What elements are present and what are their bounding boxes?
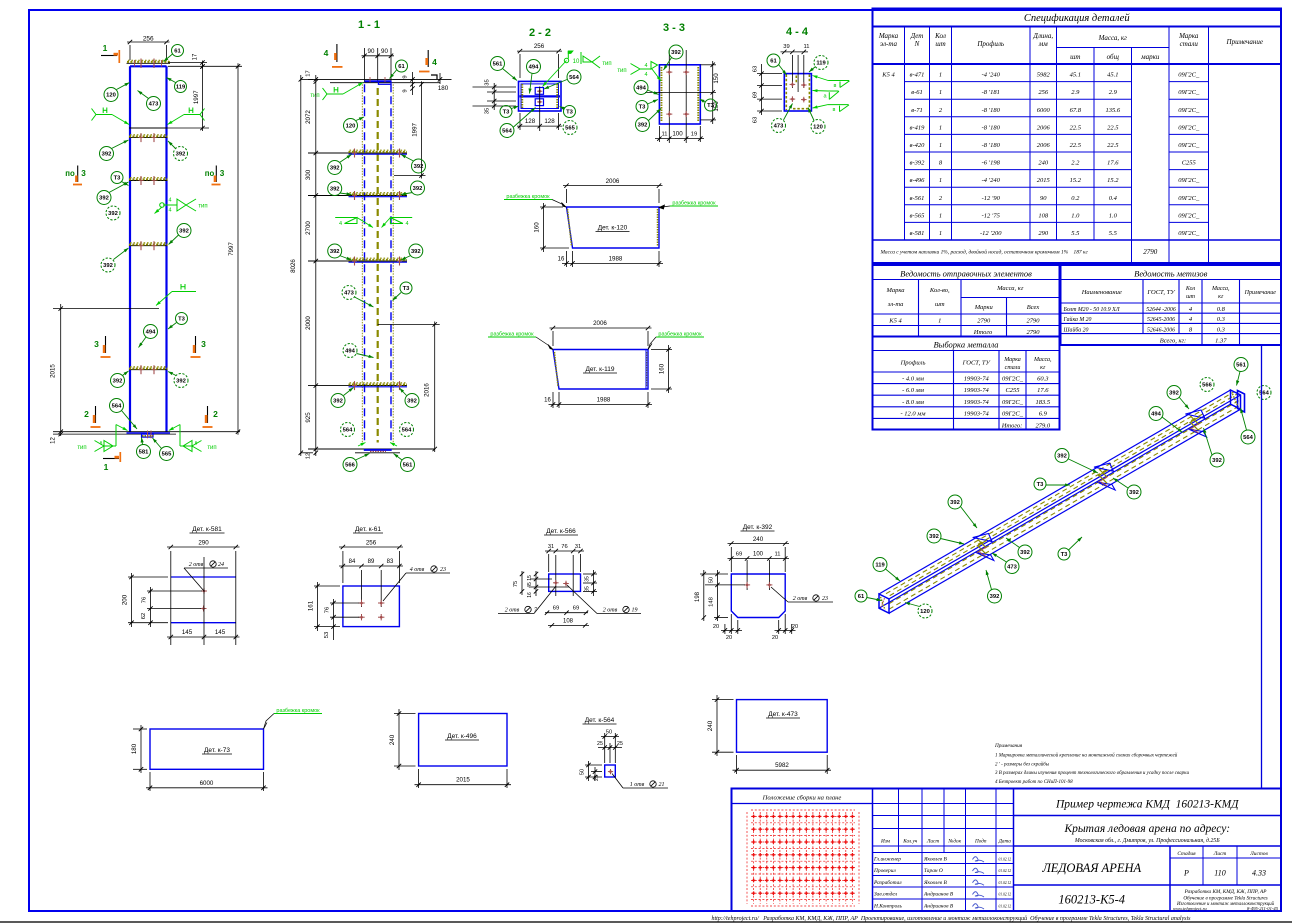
- spec table: Спецификация деталей - outer frame: [873, 9, 1282, 264]
- svg-text:25: 25: [597, 741, 603, 747]
- svg-text:Ведомость отправочных элементо: Ведомость отправочных элементов: [900, 269, 1032, 279]
- svg-text:12: 12: [51, 437, 57, 444]
- svg-text:Примечания: Примечания: [994, 743, 1023, 749]
- bubble 61 4-4: [767, 54, 780, 67]
- svg-text:17.6: 17.6: [1037, 387, 1049, 394]
- right end cap weld hatch: [1233, 394, 1238, 406]
- svg-text:100: 100: [672, 131, 683, 138]
- svg-text:16: 16: [544, 398, 551, 404]
- svg-text:- 12.0 мм: - 12.0 мм: [900, 410, 925, 417]
- svg-text:90: 90: [368, 48, 375, 55]
- svg-text:63: 63: [753, 117, 759, 123]
- bolts 3-3: [666, 71, 672, 73]
- svg-text:3: 3: [220, 169, 225, 178]
- svg-text:стали: стали: [1005, 365, 1021, 371]
- svg-text:2790: 2790: [977, 318, 991, 325]
- bubble Т3 left 2-2: [500, 106, 512, 118]
- svg-text:в: в: [833, 107, 836, 113]
- svg-text:Марка: Марка: [1003, 357, 1021, 363]
- svg-text:240: 240: [753, 536, 764, 543]
- svg-text:Андрианов В: Андрианов В: [923, 903, 954, 910]
- bubble 494 2-2: [527, 60, 541, 74]
- svg-text:45: 45: [527, 582, 533, 588]
- svg-text:473: 473: [149, 102, 159, 108]
- svg-text:90: 90: [381, 48, 388, 55]
- svg-text:0.8: 0.8: [1217, 306, 1226, 313]
- svg-text:148: 148: [709, 597, 715, 607]
- svg-text:тип: тип: [198, 204, 207, 210]
- dims 128 128 bottom 2-2: [519, 113, 521, 130]
- bubble 473 dashed 4-4: [772, 119, 786, 133]
- svg-text:2790: 2790: [1027, 318, 1041, 325]
- svg-text:84: 84: [349, 559, 356, 565]
- bubble 494 iso: [1149, 407, 1163, 421]
- svg-text:128: 128: [525, 118, 536, 125]
- dim 17 top right: [168, 62, 207, 64]
- dim 180 к-73: [133, 728, 147, 730]
- dim 256 top: [127, 41, 170, 43]
- svg-text:09Г2С_: 09Г2С_: [1002, 410, 1024, 417]
- svg-text:392: 392: [176, 379, 186, 385]
- bubble 119: [175, 81, 187, 93]
- bottom dims 145 145 к-581: [167, 636, 240, 638]
- dims 50 25 25 к-564 top: [604, 733, 606, 763]
- svg-text:52644 -2006: 52644 -2006: [1146, 306, 1176, 313]
- svg-text:392: 392: [407, 399, 417, 405]
- svg-text:76: 76: [142, 597, 148, 603]
- dims 16 1988 к-119: [552, 392, 554, 408]
- svg-text:392: 392: [990, 594, 1000, 600]
- svg-text:С255: С255: [1182, 160, 1197, 167]
- svg-text:2006: 2006: [606, 178, 620, 185]
- svg-text:45.1: 45.1: [1107, 72, 1118, 79]
- svg-text:3 - 3: 3 - 3: [663, 22, 685, 34]
- svg-text:128: 128: [544, 118, 555, 125]
- svg-text:кг: кг: [1218, 294, 1224, 300]
- svg-text:1997: 1997: [412, 122, 419, 136]
- svg-text:2: 2: [84, 409, 89, 419]
- svg-text:2006: 2006: [593, 320, 607, 327]
- svg-text:21: 21: [659, 782, 665, 788]
- bubble 561 2-2: [491, 57, 505, 71]
- svg-text:160213-К5-4: 160213-К5-4: [1058, 893, 1125, 907]
- svg-text:17: 17: [306, 70, 312, 76]
- svg-text:290: 290: [1038, 230, 1049, 237]
- left dims к-564: [585, 764, 602, 766]
- svg-text:Разработка КМ, КМД, КЖ, ППР, А: Разработка КМ, КМД, КЖ, ППР, АР: [1184, 888, 1268, 895]
- bolts к-581: [201, 590, 207, 592]
- svg-text:392: 392: [411, 249, 421, 255]
- bubble 392 bottom left 3-3: [636, 118, 650, 132]
- svg-text:К5 4: К5 4: [888, 318, 902, 325]
- svg-text:09Г2С_: 09Г2С_: [1178, 230, 1200, 237]
- bubble 392 iso f: [927, 529, 941, 543]
- bubble 565 dashed 2-2: [563, 121, 577, 135]
- svg-text:Т3: Т3: [403, 286, 411, 292]
- bubble 564 bottom 2-2: [500, 124, 514, 138]
- spec table footer row: [873, 239, 1282, 241]
- svg-text:108: 108: [1038, 212, 1049, 219]
- total dim 8026 1-1: [300, 75, 302, 456]
- svg-text:69: 69: [553, 606, 559, 612]
- dim 1997 right 1-1: [394, 175, 426, 177]
- svg-text:2 отв: 2 отв: [603, 608, 618, 614]
- column edges 1-1: [364, 84, 366, 442]
- svg-text:2006: 2006: [1037, 124, 1051, 131]
- bubble Т3 1-1: [400, 282, 412, 294]
- svg-text:шт: шт: [1186, 294, 1196, 300]
- svg-text:Итого:: Итого:: [1001, 422, 1023, 429]
- svg-text:01.02.12: 01.02.12: [998, 858, 1011, 862]
- dims 39 11 top 4-4: [781, 51, 809, 53]
- dim 160 к-120: [540, 206, 563, 208]
- svg-text:19903-74: 19903-74: [964, 410, 990, 417]
- svg-text:1997: 1997: [193, 90, 200, 104]
- svg-text:ЛЕДОВАЯ АРЕНА: ЛЕДОВАЯ АРЕНА: [1041, 861, 1141, 875]
- svg-text:Дет. к-581: Дет. к-581: [192, 526, 222, 533]
- svg-text:61: 61: [174, 49, 181, 55]
- spec table header grid: [873, 63, 1282, 65]
- svg-text:566: 566: [1202, 383, 1212, 389]
- bubble Т3 right mid: [176, 313, 188, 325]
- detail Дет. к-119 plate: [553, 350, 648, 390]
- svg-text:19: 19: [632, 608, 638, 614]
- dims 35 35 left 2-2: [473, 86, 517, 88]
- svg-text:Таран О: Таран О: [924, 868, 943, 874]
- bubble 120: [104, 88, 118, 102]
- svg-text:17.6: 17.6: [1107, 160, 1119, 167]
- svg-text:4: 4: [644, 63, 647, 69]
- box section 3-3: [659, 65, 700, 124]
- svg-text:Положение сборки на плане: Положение сборки на плане: [762, 795, 842, 802]
- svg-text:566: 566: [345, 463, 355, 469]
- bubble Т3 iso b: [1058, 548, 1070, 560]
- dim 2016 right 1-1: [434, 322, 436, 453]
- svg-text:1: 1: [939, 230, 942, 237]
- web plate horizontal 2-2: [520, 95, 561, 97]
- svg-text:Московская обл., г. Дмитров, у: Московская обл., г. Дмитров, ул. Професс…: [1074, 837, 1220, 844]
- svg-text:4: 4: [644, 72, 647, 78]
- title block outer frame: [732, 789, 1282, 912]
- svg-text:53: 53: [324, 632, 330, 638]
- svg-text:145: 145: [215, 629, 226, 636]
- stiffener cluster c2: [1094, 463, 1113, 471]
- stiffener row2 1-1: [308, 195, 407, 197]
- bubble 392 top 3-3: [669, 45, 683, 59]
- weld symbol at base left: [116, 425, 128, 431]
- svg-text:Стадия: Стадия: [1177, 850, 1196, 857]
- svg-text:5982: 5982: [775, 762, 789, 769]
- svg-text:39: 39: [783, 44, 789, 50]
- svg-text:120: 120: [106, 93, 116, 99]
- dim 7997 right: [168, 65, 242, 67]
- svg-text:75: 75: [513, 581, 519, 587]
- svg-text:Дет: Дет: [910, 32, 924, 40]
- svg-text:3 В размерах длины изучения п: 3 В размерах длины изучения процент техн…: [995, 771, 1190, 776]
- svg-text:62: 62: [141, 613, 147, 619]
- dim 240 к-473: [712, 699, 734, 701]
- svg-text:2 - 2: 2 - 2: [529, 27, 551, 39]
- box section 2-2 inner wall: [521, 84, 559, 109]
- bubble 564 dashed iso right: [1257, 386, 1271, 400]
- svg-text:1: 1: [939, 89, 942, 96]
- svg-text:Т3: Т3: [1037, 482, 1045, 488]
- svg-text:20: 20: [772, 635, 778, 641]
- svg-text:392: 392: [638, 123, 648, 129]
- svg-text:-4 ′240: -4 ′240: [982, 177, 1001, 184]
- box section 2-2 outer: [519, 81, 562, 111]
- svg-text:0.2: 0.2: [1071, 195, 1080, 202]
- bubble 61 top: [172, 45, 184, 57]
- dim 2015 к-496: [418, 769, 420, 788]
- svg-text:Профиль: Профиль: [976, 40, 1004, 48]
- svg-text:61: 61: [398, 64, 405, 70]
- column centerline olive dashed: [377, 88, 379, 443]
- svg-text:19903-74: 19903-74: [964, 387, 990, 394]
- bubbles 392 row1 1-1: [328, 161, 342, 175]
- stiffener row 1: [129, 137, 168, 139]
- svg-text:23: 23: [822, 596, 828, 602]
- weld mark H right top: [184, 114, 200, 116]
- bolt gauge verticals 4-4: [791, 55, 793, 88]
- bubble 392 row4 right dashed: [174, 374, 188, 388]
- svg-text:4: 4: [168, 208, 171, 214]
- svg-text:392: 392: [1057, 454, 1067, 460]
- svg-text:2790: 2790: [1027, 329, 1041, 336]
- svg-text:22.5: 22.5: [1070, 142, 1082, 149]
- svg-text:Т3: Т3: [178, 317, 186, 323]
- stiffener row 3: [129, 245, 168, 247]
- dim 9 9 right of cap: [393, 78, 415, 80]
- svg-text:тип: тип: [310, 93, 319, 99]
- svg-text:392: 392: [950, 500, 960, 506]
- svg-text:119: 119: [875, 563, 885, 569]
- svg-text:2790: 2790: [1143, 248, 1158, 256]
- svg-text:256: 256: [534, 43, 545, 50]
- red assembly-position hatch grid: [746, 812, 748, 904]
- svg-text:тип: тип: [207, 445, 216, 451]
- bubble 473: [147, 97, 161, 111]
- svg-text:1: 1: [938, 318, 941, 325]
- svg-text:Дата: Дата: [998, 839, 1012, 845]
- svg-text:Лист: Лист: [926, 839, 939, 845]
- svg-text:8-495-211-01-45: 8-495-211-01-45: [1247, 906, 1279, 911]
- bubble 494: [144, 325, 158, 339]
- svg-text:22.5: 22.5: [1107, 142, 1119, 149]
- svg-text:108: 108: [563, 619, 574, 625]
- svg-text:240: 240: [1038, 160, 1049, 167]
- svg-text:Гайка М 20: Гайка М 20: [1063, 316, 1092, 323]
- svg-text:шт: шт: [935, 40, 945, 48]
- olive hatch edges 3-3: [661, 67, 663, 122]
- svg-text:01.02.12: 01.02.12: [998, 893, 1011, 897]
- svg-text:Кол: Кол: [934, 32, 946, 40]
- detail Дет. к-473: [737, 700, 828, 753]
- title block: staff/sign table: [1013, 789, 1015, 912]
- svg-text:392: 392: [176, 152, 186, 158]
- svg-text:4: 4: [324, 48, 329, 58]
- svg-text:09Г2С_: 09Г2С_: [1178, 142, 1200, 149]
- inner tube top 2-2: [535, 88, 543, 95]
- svg-text:Ведомость метизов: Ведомость метизов: [1134, 269, 1207, 279]
- svg-text:Кол: Кол: [1185, 286, 1196, 292]
- bubble 566 base 1-1: [343, 458, 357, 472]
- bubble 392 iso h: [988, 589, 1002, 603]
- bottom edge line: [0, 921, 1292, 923]
- svg-text:0.4: 0.4: [1109, 195, 1118, 202]
- svg-text:52645-2006: 52645-2006: [1147, 316, 1175, 323]
- svg-text:по: по: [205, 169, 215, 178]
- svg-text:392: 392: [1212, 458, 1222, 464]
- svg-text:564: 564: [1259, 391, 1269, 397]
- svg-text:Масса,: Масса,: [1211, 286, 1230, 292]
- bubble 120 dashed iso: [918, 604, 932, 618]
- bubbles 392 row4 1-1: [331, 394, 345, 408]
- svg-text:11: 11: [803, 44, 809, 50]
- svg-text:Масса, кг: Масса, кг: [996, 285, 1024, 292]
- title block: stage/sheet cells: [1202, 846, 1204, 885]
- svg-text:в-496: в-496: [910, 177, 925, 184]
- svg-text:16: 16: [558, 257, 565, 263]
- bubble Т3 right 3-3: [705, 99, 717, 111]
- svg-text:89: 89: [368, 559, 375, 565]
- svg-text:35: 35: [585, 586, 591, 592]
- stiffener row 4: [129, 369, 168, 371]
- section line at 1997 level: [129, 127, 168, 129]
- svg-text:09Г2С_: 09Г2С_: [1178, 107, 1200, 114]
- svg-text:183.5: 183.5: [1035, 399, 1050, 406]
- svg-text:3: 3: [81, 169, 86, 178]
- svg-text:256: 256: [143, 36, 154, 43]
- svg-text:198: 198: [695, 591, 701, 602]
- svg-text:24: 24: [218, 561, 224, 568]
- svg-text:581: 581: [139, 450, 149, 456]
- svg-text:11: 11: [774, 552, 780, 558]
- svg-text:2.9: 2.9: [1109, 89, 1118, 96]
- mid lines к-566: [530, 578, 552, 580]
- weld symbol at base right: [169, 425, 180, 431]
- svg-text:61: 61: [858, 594, 865, 600]
- plate rect к-61: [343, 586, 400, 627]
- svg-text:Дет. к-61: Дет. к-61: [355, 526, 381, 533]
- svg-text:2 отв: 2 отв: [793, 596, 808, 602]
- svg-text:2015: 2015: [1037, 177, 1051, 184]
- svg-text:Примечание: Примечание: [1244, 290, 1277, 296]
- svg-text:Дет. к-120: Дет. к-120: [598, 225, 628, 232]
- svg-text:Марка: Марка: [1178, 32, 1199, 40]
- svg-text:180: 180: [438, 85, 449, 92]
- svg-text:160: 160: [659, 363, 666, 374]
- svg-text:1.37: 1.37: [1215, 338, 1227, 345]
- svg-text:76: 76: [325, 607, 331, 613]
- beam olive dashed lines top face: [886, 392, 1234, 594]
- svg-text:150: 150: [713, 73, 720, 84]
- svg-text:8026: 8026: [290, 259, 297, 273]
- svg-text:2 отв: 2 отв: [189, 562, 204, 568]
- svg-text:23: 23: [440, 567, 446, 573]
- right end protruding plate 561: [1238, 391, 1245, 413]
- svg-text:392: 392: [108, 211, 118, 217]
- svg-text:2016: 2016: [424, 383, 431, 397]
- svg-text:20: 20: [713, 624, 719, 630]
- bottom dims 20 20 к-392: [730, 614, 732, 634]
- dim 6000 к-73: [149, 772, 151, 791]
- svg-text:22.5: 22.5: [1107, 124, 1119, 131]
- left dims к-392: [700, 573, 728, 575]
- bubble 61 top 1-1: [396, 60, 408, 72]
- svg-text:392: 392: [330, 187, 340, 193]
- left dims к-61: [330, 602, 360, 604]
- svg-text:392: 392: [1169, 391, 1179, 397]
- svg-text:Марка: Марка: [886, 287, 905, 294]
- svg-text:3: 3: [201, 339, 206, 349]
- svg-text:564: 564: [1243, 435, 1253, 441]
- svg-text:494: 494: [1151, 412, 1161, 418]
- svg-text:2015: 2015: [50, 364, 57, 378]
- svg-text:110: 110: [1214, 869, 1225, 878]
- bubble 119 dashed 4-4: [814, 56, 828, 70]
- svg-text:4 отв: 4 отв: [410, 566, 425, 573]
- bubble 561 base 1-1: [401, 458, 415, 472]
- top cap of section 1-1: [308, 78, 452, 80]
- bubble 564 top 2-2: [567, 70, 581, 84]
- svg-text:392: 392: [1020, 550, 1030, 556]
- svg-text:290: 290: [198, 540, 209, 547]
- left end cap weld hatch: [881, 597, 886, 610]
- svg-text:15: 15: [527, 575, 533, 581]
- svg-text:http://tehproject.ru/ Разраб: http://tehproject.ru/ Разработка КМ, КМД…: [711, 915, 1191, 922]
- weld mark H mid: [172, 291, 196, 293]
- left dims к-581: [147, 590, 202, 592]
- svg-text:392: 392: [413, 186, 423, 192]
- svg-text:135.6: 135.6: [1105, 107, 1120, 114]
- svg-text:200: 200: [122, 594, 129, 605]
- svg-text:Зав.отдел: Зав.отдел: [874, 891, 898, 898]
- bubble 392 row1 left: [100, 147, 114, 161]
- dim 2006 к-119: [552, 331, 554, 346]
- stiffener row4 1-1: [308, 385, 407, 387]
- svg-text:12: 12: [306, 453, 312, 459]
- svg-text:ГОСТ, ТУ: ГОСТ, ТУ: [1146, 289, 1176, 296]
- bubble Т3 right 2-2: [564, 106, 576, 118]
- svg-text:19: 19: [691, 132, 697, 138]
- top cap plate к-61: [127, 62, 171, 64]
- svg-text:Т3: Т3: [707, 103, 715, 109]
- svg-text:-12 ′90: -12 ′90: [982, 195, 1001, 202]
- mid horizontal line 3-3: [645, 91, 716, 93]
- svg-text:Листов: Листов: [1249, 851, 1268, 857]
- olive dashed flange lines 4-4: [785, 75, 787, 111]
- svg-text:69: 69: [753, 92, 759, 98]
- dim 240 к-392: [730, 547, 732, 572]
- svg-text:Андрианов В: Андрианов В: [923, 891, 954, 898]
- svg-text:69: 69: [736, 552, 742, 558]
- bolt gauge verticals 3-3: [668, 50, 670, 143]
- svg-text:мм: мм: [1038, 40, 1048, 48]
- bubbles 564 dashed 1-1: [341, 423, 355, 437]
- bubble 392 row2 left: [97, 191, 111, 205]
- svg-text:392: 392: [179, 229, 189, 235]
- svg-text:К5 4: К5 4: [881, 72, 895, 79]
- bubble 392 row4 left: [111, 374, 125, 388]
- svg-text:392: 392: [102, 152, 112, 158]
- svg-text:63: 63: [753, 66, 759, 72]
- svg-text:2700: 2700: [305, 221, 312, 235]
- bubble 392 row3 left dashed: [101, 258, 115, 272]
- svg-text:Крытая ледовая арена по адресу: Крытая ледовая арена по адресу:: [1063, 823, 1230, 835]
- dim 256 sec2-2: [519, 54, 521, 78]
- svg-text:120: 120: [813, 125, 823, 131]
